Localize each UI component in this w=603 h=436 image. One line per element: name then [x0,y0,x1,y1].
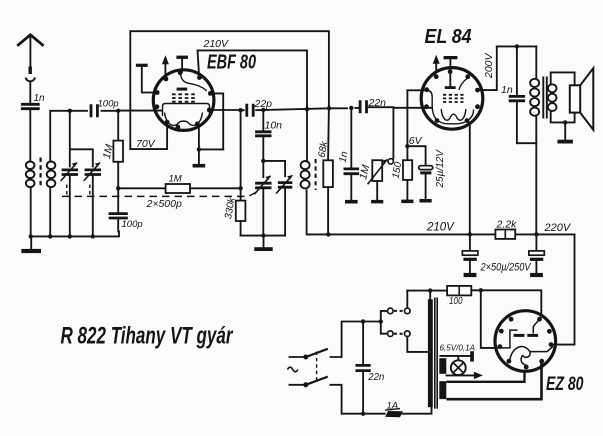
EBF80 internal cathode [165,113,203,126]
EBF80 cathode box 70V [130,122,167,149]
wire output bottom [517,142,536,144]
wire 100p to 1M node [102,110,119,112]
selector tap wires [407,291,428,352]
ground 25u [425,174,427,199]
speaker [570,85,580,112]
wire main left [70,110,87,112]
node 68k [327,106,331,110]
volume pot feed [392,108,394,159]
node 330k [238,108,242,112]
capacitor 1n IF [350,108,352,167]
tube EBF80 [153,70,214,131]
EL84 cathode drop [467,121,470,235]
tube EZ80 [495,311,556,372]
osc ground rail [241,235,286,237]
wire secondary top [50,111,70,162]
antenna transformer primary [26,162,35,170]
mains symbol [288,367,298,372]
svg-text:22n: 22n [367,372,384,383]
node 68k rail [326,232,330,236]
wire EBF80 output [209,109,240,111]
resistor 150 cathode [406,146,408,160]
svg-text:2×50µ/250V: 2×50µ/250V [480,262,532,274]
svg-text:R 822 Tihany VT gyár: R 822 Tihany VT gyár [61,323,234,350]
wire coil primary to ground rail [30,189,32,237]
wire switch lower [331,385,385,414]
node 6V [405,144,409,148]
svg-text:10n: 10n [265,120,283,132]
wire CV1 bottom [69,175,71,237]
EBF80 cathode to ground [197,124,199,149]
potentiometer 1M volume [372,160,382,181]
core [39,158,41,188]
node EL84 drop [468,232,472,236]
EZ80 internal cathode [510,347,530,360]
EL84 internal screen box [427,90,474,124]
wire to voltage selector [363,311,387,334]
svg-text:2×500p: 2×500p [146,198,182,210]
node 22n mains bottom [361,412,365,416]
wire 100 feed [407,290,447,292]
node AVC divider [116,186,120,190]
wire to 25u cap [407,146,425,165]
ground pot [376,181,378,200]
EL84 screen feed [407,89,426,91]
EBF80 screen loop [210,93,223,149]
capacitor 100p series [91,104,97,117]
wire 1M to osc node [190,187,241,189]
ground speaker [564,122,566,139]
svg-text:1n: 1n [34,93,46,104]
EL84 internal grids [443,94,464,96]
ganged tuning dashed link 2x500p [62,191,259,196]
svg-text:210V: 210V [426,222,455,234]
resistor 100 [447,286,471,296]
EL84 internal top cap [449,72,451,87]
tuning capacitor CV2 [85,170,101,175]
heater arrow [446,374,474,376]
arrow terminal above EBF80 [164,63,166,76]
antenna transformer secondary [47,162,56,170]
power transformer primary [428,299,433,407]
svg-text:220V: 220V [544,222,572,234]
svg-text:1M: 1M [169,174,182,185]
heater wire 2 [446,363,541,399]
wire CV1 feed [70,111,93,167]
svg-text:6V: 6V [409,135,423,147]
electrolytic 2x50u left [469,234,471,250]
EBF80 internal screen box [163,104,210,117]
heater wire 1 [446,370,524,382]
ground EBF80 cathode [198,149,200,164]
node main wire / tuning cap CV1 [68,109,72,113]
top cap terminal EL84 [444,56,458,59]
oscillator coil [306,107,308,161]
capacitor 22n mains [362,322,364,364]
svg-text:2.2k: 2.2k [496,219,518,231]
EL84 anode wire [478,46,497,90]
node speaker ground [563,120,567,124]
power transformer secondary 6.3V [439,358,446,374]
wire CV2 bottom [92,175,94,237]
wire CV4 bottom [284,187,286,235]
electrolytic 2x50u right [535,234,537,250]
ground 1n IF [350,174,352,200]
mains switch [306,349,328,385]
EBF80 internal diode anode [181,75,207,91]
tuning capacitor CV1 [62,170,78,175]
capacitor 25u/12V electrolytic [419,166,433,170]
ground osc rail [263,236,265,248]
wire output top [497,45,537,47]
wire AVC to 1M horizontal [118,187,165,189]
wire IF bus [256,108,358,110]
EL84 internal cathode [441,109,466,120]
resistor 68k [327,107,330,161]
arrow terminal above EL84 [435,63,437,72]
EL84 internal grid wire [459,78,468,90]
wire CV3 bottom [262,188,264,236]
EBF80 anode 210V line [198,50,308,106]
node 1M chain [116,109,120,113]
chassis bar above EBF80 [136,64,148,67]
capacitor 100p bottom [117,188,119,212]
wire C1 to antenna coil [29,109,31,161]
node output primary [534,232,538,236]
antenna [17,35,43,46]
node EZ80 left feed [479,288,483,292]
wire varcap link [263,161,285,176]
wire 220V to EZ80 cathode [554,234,575,344]
voltage selector contacts [388,308,394,314]
svg-text:200V: 200V [483,52,495,79]
svg-text:6,5V/0,1A: 6,5V/0,1A [440,343,476,353]
power transformer core [435,298,437,409]
svg-text:1n: 1n [501,84,513,96]
resistor 1M vertical [117,111,119,141]
resistor 330k [240,110,242,200]
EZ80 internal anode left [501,330,518,348]
node 22n mains top [361,319,365,323]
svg-text:EZ 80: EZ 80 [546,374,584,395]
node osc varcap feed [261,159,265,163]
node 1n IF [349,106,353,110]
svg-text:100p: 100p [98,99,119,110]
capacitor 10n [262,110,264,130]
wire to 22p [241,109,244,111]
capacitor 22n series [360,100,366,113]
svg-text:210V: 210V [203,38,230,50]
output transformer primary [535,46,537,78]
wire switch upper [331,322,364,358]
wire EZ80 left pin feed [481,290,498,348]
wire secondary bottom [49,189,51,237]
wire fuse to transformer [403,407,432,414]
svg-text:EL 84: EL 84 [425,26,472,48]
svg-text:70V: 70V [136,138,156,150]
EZ80 internal anode right [527,334,538,337]
front ground rail [31,232,119,237]
mains terminals [290,357,304,385]
capacitor 1n antenna [21,104,40,108]
output transformer secondary [551,72,575,85]
capacitor 22p series [247,104,253,117]
resistor 2.2k [495,230,515,239]
pot terminal circle [388,159,393,164]
210V supply rail [309,233,575,235]
outer box wire top [130,31,329,149]
wire to EBF80 grid [118,110,162,112]
output transformer core [543,77,547,119]
power transformer secondary heater [439,381,446,399]
wire 100 to EZ80 anode [471,290,541,317]
tube EL84 [421,68,483,130]
ground 150 [406,180,408,200]
EBF80 internal grids [172,93,197,95]
svg-text:EBF 80: EBF 80 [207,52,256,74]
resistor 1M horizontal [166,184,190,193]
node 10n [261,108,265,112]
osc varcap CV4 [278,183,292,188]
wire 6V line [406,90,408,146]
svg-text:100: 100 [449,295,463,307]
top cap terminal EBF80 [176,56,188,59]
svg-text:25µ/12V: 25µ/12V [435,149,446,189]
wire 22n to grid EL84 [368,106,432,109]
capacitor 1n output [516,46,518,94]
svg-text:100p: 100p [122,219,143,230]
osc varcap CV3 [262,161,264,177]
wire antenna to C1 [29,82,31,103]
wire primary top [429,291,431,300]
ground front rail [30,236,32,249]
